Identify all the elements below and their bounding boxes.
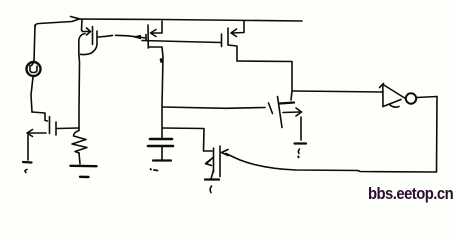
wire rail corner down to current source: [34, 25, 35, 62]
M6 gate corner wire: [32, 112, 48, 121]
transistor M3 source hook: [228, 45, 237, 61]
M6 source lead down: [27, 135, 29, 160]
inverter output wire: [417, 97, 438, 98]
inverter U1 bottom edge: [383, 100, 401, 107]
inverter U1 triangle left edge: [382, 85, 384, 107]
transistor M1 channel bar: [92, 27, 94, 45]
transistor M2 drain hook from rail: [151, 21, 162, 33]
transistor M5 gate bar: [219, 146, 221, 177]
transistor M6 drain lead to node: [57, 127, 79, 130]
transistor M6 source arrowhead: [27, 130, 33, 137]
M1 source vertical wire down to node: [78, 54, 81, 131]
capacitor C1 bottom plate: [148, 145, 173, 148]
wire current source to M6 gate corner: [31, 77, 33, 112]
transistor M1 gate bar: [96, 31, 98, 44]
ground curl under M5: [210, 186, 211, 193]
output wire down right side: [436, 97, 439, 173]
watermark text bbs.eetop.cn: [368, 185, 453, 204]
wire M3 source to node column: [237, 61, 292, 91]
resistor R1 bottom lead: [79, 153, 80, 164]
capacitor C1 bottom lead: [161, 147, 163, 161]
M2 source vertical wire down: [162, 57, 163, 139]
junction dot on M2 source line: [160, 60, 163, 62]
transistor M4 source arrow: [283, 111, 300, 114]
capacitor C1 top plate: [150, 138, 172, 141]
M5 source lead down: [211, 170, 214, 179]
transistor M4 channel bar: [278, 97, 283, 128]
arrow tick on power rail: [71, 17, 80, 19]
transistor M4 source arrowhead: [296, 108, 302, 116]
gate wire node to M4 (from M2 source line): [163, 107, 266, 108]
transistor M1 drain arrowhead: [87, 28, 91, 35]
transistor M2 gate blob tick: [145, 35, 147, 41]
current source I1 inner arrow: [30, 63, 37, 73]
ground wide bar under R1: [71, 165, 97, 168]
transistor M2 channel bar: [147, 25, 149, 48]
transistor M5 channel bar: [213, 148, 215, 172]
current source I1 circle: [27, 62, 41, 76]
ground bar under M4: [295, 142, 307, 144]
feedback arrowhead into M5 gate: [222, 150, 229, 156]
transistor M4 drain hook: [280, 103, 295, 104]
transistor M6 channel bar: [55, 122, 57, 135]
ground curl under M6: [25, 170, 27, 173]
ground bar under M5: [205, 178, 219, 180]
transistor M6 gate bar: [49, 117, 51, 134]
resistor R1 zigzag: [72, 131, 87, 154]
inverter U1 output bubble: [406, 93, 416, 103]
transistor M3 channel bar: [227, 28, 229, 45]
ground bar under M6: [23, 161, 32, 164]
transistor M5 source arrowhead: [206, 160, 212, 166]
transistor M5 source arrow line: [206, 158, 213, 165]
transistor M3 drain arrowhead: [231, 29, 237, 37]
long gate wire M2 to M3: [142, 41, 221, 43]
arrowhead on M1-M2 gate wire (filled): [134, 35, 141, 38]
ground dot under M4: [297, 156, 299, 159]
inverter input wire: [293, 91, 383, 92]
power rail top wire: [35, 19, 302, 27]
transistor M2 drain arrowhead: [151, 30, 157, 37]
wire cap node to M5 drain: [163, 128, 213, 151]
gate wire M2 segment: [116, 35, 147, 38]
transistor M2 source hook: [149, 47, 163, 57]
transistor M4 gate plate (slanted): [269, 103, 273, 114]
transistor M1 drain drop from rail: [82, 20, 90, 32]
ground dots under capacitor: [151, 169, 158, 171]
feedback wire bottom: [226, 154, 436, 173]
inverter U1 apex tick: [380, 84, 384, 88]
transistor M1 source curve: [81, 45, 98, 55]
node column wire down to M4 drain: [291, 91, 292, 100]
inverter U1 bottom curl: [390, 105, 400, 108]
transistor M3 gate bar: [221, 34, 223, 47]
transistor M3 drain hook from rail: [232, 21, 244, 33]
M4 source vertical: [300, 117, 302, 140]
ground curl under M4: [298, 149, 299, 154]
transistor M1 source hook left: [79, 34, 85, 54]
gate wire M1: [98, 35, 113, 37]
ground second bar under R1: [80, 176, 89, 179]
transistor M6 source arrow line: [28, 132, 46, 134]
ground bar under capacitor: [153, 159, 171, 161]
inverter U1 hypotenuse: [383, 85, 406, 99]
